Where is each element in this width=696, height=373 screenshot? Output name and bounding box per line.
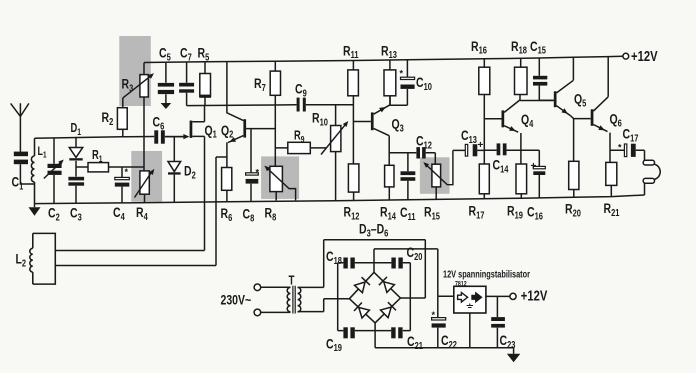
- svg-text:12V spanningstabilisator: 12V spanningstabilisator: [443, 268, 530, 279]
- label 7812: [455, 280, 467, 288]
- ground (C5): [161, 103, 172, 109]
- diode D1: [69, 137, 82, 177]
- resistor R6: [222, 168, 232, 202]
- label C22: [441, 333, 457, 351]
- variable resistor R4: [135, 169, 155, 203]
- transistor Q1: [165, 105, 204, 139]
- wire bridge frame: [338, 263, 411, 331]
- resistor R12: [348, 164, 359, 201]
- resistor R1: [88, 163, 109, 172]
- highlight box behind R4: [131, 151, 162, 202]
- diode D2: [168, 137, 181, 203]
- label Q1: [205, 122, 217, 140]
- label R17: [469, 203, 485, 221]
- diode D5 (bridge SW): [354, 303, 369, 319]
- label R5: [198, 45, 210, 63]
- label R7: [254, 76, 266, 94]
- wire regulator input: [438, 295, 454, 297]
- label C2: [48, 205, 60, 223]
- inductor L1: [31, 138, 34, 203]
- diode D6 (bridge SE): [381, 302, 397, 318]
- variable resistor R3: [123, 63, 154, 171]
- wire L2 to Q2 emitter tap: [55, 265, 216, 267]
- capacitor C6: [154, 130, 183, 143]
- diode D3 (bridge NW): [355, 277, 371, 293]
- capacitor C1: [14, 152, 35, 184]
- label 12V spanningstabilisator: [443, 268, 530, 279]
- wire secondary bottom to bridge W: [298, 299, 338, 312]
- capacitor C17: [610, 143, 645, 157]
- label R2: [102, 110, 114, 128]
- label C3: [70, 205, 82, 223]
- variable resistor R10: [321, 121, 348, 201]
- trimmer capacitor C2: [44, 138, 64, 203]
- resistor R13: [384, 60, 396, 96]
- label C16: [527, 204, 543, 222]
- label Q6: [610, 111, 622, 129]
- wire Q3 emitter node: [389, 152, 416, 154]
- terminal +12V (PSU): [510, 293, 516, 299]
- svg-text:+12V: +12V: [521, 287, 548, 304]
- label R19: [507, 203, 523, 221]
- label C17: [623, 126, 639, 144]
- label +12V (top right): [631, 47, 658, 64]
- wire regulator output: [486, 295, 510, 297]
- label L1: [38, 145, 47, 160]
- wire node B: [187, 104, 297, 107]
- svg-text:+: +: [478, 140, 484, 151]
- wire C4 tap: [121, 167, 123, 177]
- label R13: [381, 43, 397, 61]
- label L2: [16, 251, 27, 269]
- label D3-D6: [359, 221, 388, 239]
- wire bridge diamond: [349, 272, 400, 323]
- transistor Q3: [353, 96, 390, 166]
- capacitor C5: [158, 62, 174, 103]
- transistor Q2: [227, 62, 275, 168]
- capacitor C23: [491, 296, 505, 347]
- capacitor C7: [179, 62, 194, 106]
- label C23: [500, 333, 516, 351]
- label C19: [326, 336, 342, 354]
- svg-text:*: *: [618, 143, 622, 153]
- label C8: [243, 206, 255, 224]
- wire bridge - output (S): [375, 323, 513, 348]
- wire C14 node: [484, 149, 539, 151]
- resistor R20: [569, 161, 579, 197]
- transformer T: [287, 286, 301, 314]
- wire node A (L1/D1/R2/C6 line): [35, 137, 155, 139]
- resistor R21: [606, 162, 617, 196]
- capacitor C21: [391, 327, 402, 338]
- capacitor C13: [453, 140, 484, 156]
- label R10: [312, 110, 328, 128]
- ground (PSU): [507, 348, 520, 363]
- wire ground rail: [35, 195, 645, 204]
- label R9: [294, 129, 305, 144]
- capacitor C12: [416, 147, 435, 164]
- ground (main, left): [29, 204, 41, 216]
- label C10: [416, 75, 432, 93]
- capacitor C10: [390, 60, 415, 105]
- svg-text:+12V: +12V: [631, 47, 658, 64]
- resistor R19: [516, 164, 527, 198]
- label R16: [471, 38, 487, 56]
- label R1: [92, 149, 103, 164]
- label C4: [113, 205, 125, 223]
- label Q2: [221, 122, 233, 140]
- transistor Q6: [591, 57, 610, 163]
- potentiometer R8: [264, 166, 295, 201]
- label C12: [416, 133, 432, 151]
- capacitor C18: [343, 258, 354, 269]
- label R3: [122, 76, 134, 94]
- label D2: [184, 163, 196, 181]
- wire mains bottom: [261, 311, 291, 313]
- svg-text:230V~: 230V~: [221, 292, 252, 308]
- label D1: [71, 122, 82, 137]
- antenna: [11, 103, 29, 152]
- svg-text:*: *: [432, 310, 436, 320]
- wire +12V top rail: [144, 56, 623, 62]
- label C5: [159, 45, 171, 63]
- capacitor C4: [115, 167, 130, 203]
- wire L2 to Q1 emitter: [55, 250, 204, 252]
- wire Q5 emitter to R20: [573, 119, 575, 162]
- wire Q1 emitter to L2: [204, 136, 206, 250]
- label R8: [265, 205, 277, 223]
- resistor R2: [117, 98, 127, 137]
- resistor R9: [275, 142, 326, 153]
- label C9: [295, 81, 307, 99]
- svg-text:*: *: [125, 167, 129, 177]
- label Q3: [392, 116, 404, 134]
- wire Q2 emitter tap to L2: [216, 157, 227, 266]
- label R12: [344, 204, 360, 222]
- diode D4 (bridge NE): [379, 277, 395, 293]
- wire bridge + output (N): [374, 249, 438, 296]
- resistor R16: [479, 59, 490, 164]
- label R11: [343, 43, 359, 61]
- resistor R14: [385, 165, 394, 200]
- wire D1-R1 node: [76, 166, 144, 168]
- transistor Q4: [484, 95, 554, 165]
- wire regulator ground pin: [469, 313, 471, 348]
- label T: [289, 274, 295, 288]
- capacitor C3: [68, 177, 84, 203]
- label R4: [136, 205, 148, 223]
- label R18: [511, 38, 527, 56]
- capacitor C19: [343, 327, 354, 338]
- label C20: [407, 245, 423, 263]
- highlight box behind R15: [420, 157, 450, 194]
- wire secondary top to bridge E: [298, 240, 426, 298]
- capacitor C9: [297, 98, 354, 126]
- resistor R17: [479, 164, 489, 198]
- capacitor C8: [246, 129, 260, 202]
- capacitor C15: [533, 58, 547, 100]
- svg-text:+: +: [531, 161, 537, 172]
- capacitor C22: [432, 296, 446, 347]
- label R14: [380, 204, 396, 222]
- resistor R18: [515, 58, 528, 95]
- label C11: [400, 205, 416, 223]
- label C7: [180, 45, 192, 63]
- label C21: [407, 334, 423, 352]
- earphone (speaker): [643, 150, 660, 195]
- capacitor C11: [401, 153, 416, 200]
- resistor R5: [199, 62, 211, 106]
- svg-text:D3–D6: D3–D6: [359, 221, 388, 239]
- transistor Q5: [540, 57, 591, 118]
- svg-text:*: *: [400, 69, 404, 79]
- terminal mains bottom: [254, 309, 261, 316]
- inductor L2: [30, 233, 56, 284]
- resistor R7: [270, 61, 280, 166]
- svg-text:*: *: [256, 168, 260, 178]
- svg-text:T: T: [289, 274, 295, 288]
- label Q4: [521, 112, 533, 130]
- label 230V~: [221, 292, 252, 308]
- capacitor C14: [497, 143, 507, 155]
- label R15: [424, 204, 440, 222]
- terminal mains top: [254, 284, 261, 291]
- resistor R11: [348, 61, 359, 164]
- voltage regulator U1 (7812): [454, 286, 486, 313]
- terminal +12V (top right): [623, 53, 629, 59]
- label C14: [493, 157, 509, 175]
- label Q5: [574, 91, 586, 109]
- label C1: [12, 174, 24, 192]
- label C15: [530, 38, 546, 56]
- wire mains top: [261, 286, 291, 288]
- highlight box behind R3: [119, 36, 151, 106]
- capacitor C16: [531, 150, 546, 198]
- potentiometer R15: [423, 150, 453, 199]
- highlight box behind R8: [261, 156, 299, 199]
- label C18: [326, 249, 342, 267]
- label C6: [153, 114, 165, 132]
- label R20: [565, 201, 581, 219]
- label +12V (PSU): [521, 287, 548, 304]
- capacitor C20: [391, 258, 402, 269]
- label R21: [604, 201, 620, 219]
- label R6: [221, 206, 233, 224]
- label C13: [461, 128, 477, 146]
